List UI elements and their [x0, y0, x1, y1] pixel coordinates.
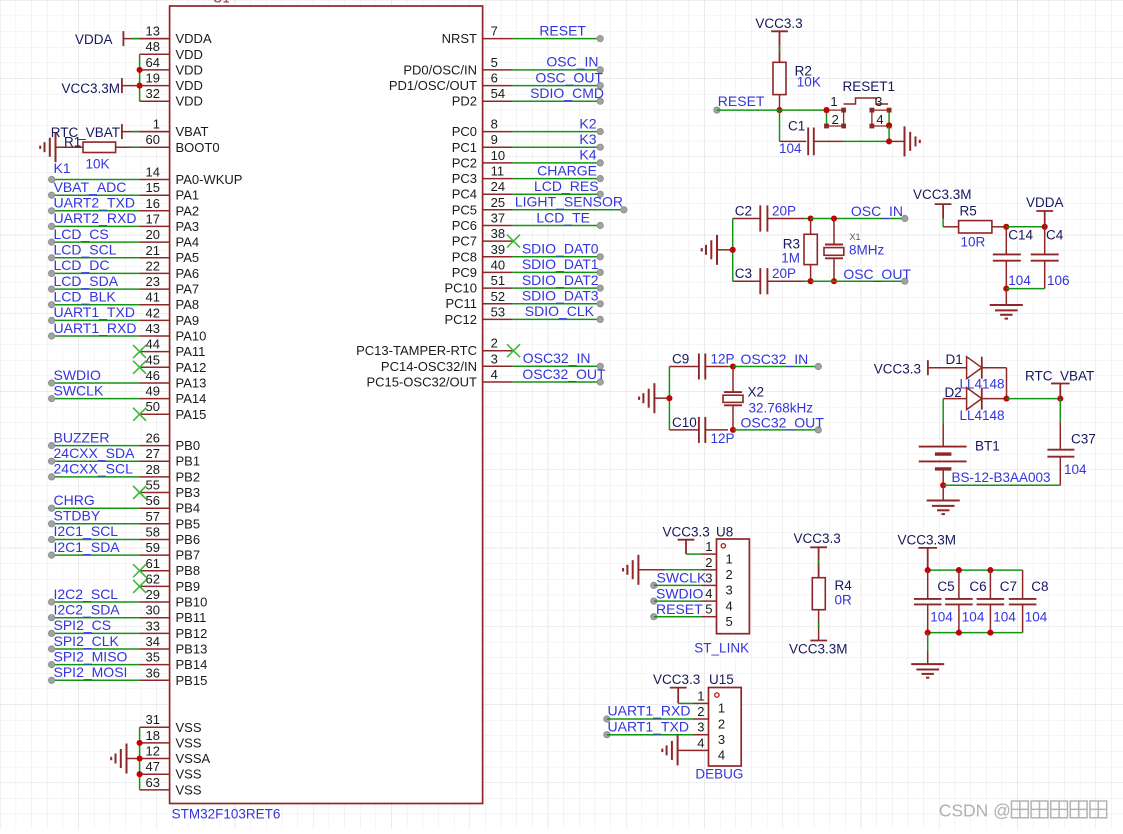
svg-text:PB10: PB10: [176, 595, 208, 610]
junction RTC_VBAT: [1057, 396, 1063, 402]
svg-text:5: 5: [726, 614, 733, 629]
wire VDD bracket: [139, 54, 141, 101]
svg-text:OSC_IN: OSC_IN: [546, 54, 598, 70]
svg-text:SDIO_CLK: SDIO_CLK: [525, 303, 595, 319]
power port VCC3.3M (cap bank): [898, 533, 957, 571]
U1 pin 18 VSS: [140, 728, 202, 751]
wire C1 to ground: [843, 140, 889, 142]
U1 pin 19 VDD: [140, 71, 203, 94]
svg-text:4: 4: [876, 112, 883, 127]
capacitor C2: [733, 205, 804, 231]
svg-text:LCD_RES: LCD_RES: [534, 178, 599, 194]
svg-text:PB5: PB5: [176, 516, 201, 531]
resistor R2: [773, 62, 786, 110]
svg-text:VCC3.3M: VCC3.3M: [61, 81, 120, 96]
U1 pin 48 VDD: [140, 39, 203, 62]
svg-text:33: 33: [146, 618, 160, 633]
U15 pin 4: [694, 735, 726, 762]
U1 pin 30 PB11: [140, 603, 207, 626]
svg-text:PA15: PA15: [176, 407, 207, 422]
svg-text:C14: C14: [1008, 228, 1033, 243]
svg-text:UART2_TXD: UART2_TXD: [54, 195, 135, 211]
svg-text:43: 43: [146, 321, 160, 336]
svg-text:K3: K3: [579, 131, 596, 147]
svg-text:16: 16: [146, 196, 160, 211]
power port VCC3.3M (R4 bottom): [789, 641, 848, 657]
wire down to C37: [1059, 399, 1061, 423]
junction X2 top: [730, 363, 736, 369]
svg-text:UART2_RXD: UART2_RXD: [54, 210, 137, 226]
svg-text:63: 63: [146, 775, 160, 790]
wire R4 bottom green joint: [818, 622, 820, 627]
ground (U15): [662, 735, 677, 765]
svg-text:OSC32_IN: OSC32_IN: [523, 350, 591, 366]
wire R5 to VDDA: [1006, 226, 1044, 228]
svg-text:59: 59: [146, 540, 160, 555]
svg-text:D1: D1: [946, 352, 963, 367]
svg-text:CHRG: CHRG: [54, 492, 95, 508]
wire net OSC_OUT: [513, 82, 604, 88]
svg-text:PC2: PC2: [452, 155, 477, 170]
U1 pin 64 VDD: [140, 55, 203, 78]
junction R3 bottom: [808, 278, 814, 284]
svg-text:31: 31: [146, 712, 160, 727]
U1 pin 7 NRST: [442, 24, 513, 47]
svg-text:18: 18: [146, 728, 160, 743]
svg-text:1: 1: [153, 117, 160, 132]
wire ground to U8 pin2: [638, 569, 701, 571]
U1 pin 59 PB7: [140, 540, 200, 563]
svg-text:OSC32_OUT: OSC32_OUT: [741, 414, 825, 430]
wire net CHRG: [48, 505, 139, 511]
svg-text:BOOT0: BOOT0: [176, 140, 220, 155]
svg-text:10: 10: [491, 148, 505, 163]
no-connect PB3: [133, 486, 146, 499]
svg-text:PB3: PB3: [176, 485, 201, 500]
wire net I2C2_SDA: [48, 615, 139, 621]
svg-text:10R: 10R: [961, 235, 986, 250]
svg-text:RESET: RESET: [539, 22, 586, 38]
svg-text:SDIO_DAT0: SDIO_DAT0: [522, 241, 599, 257]
svg-text:C8: C8: [1031, 579, 1048, 594]
power port VCC3.3M (left): [61, 78, 139, 96]
U1 pin 5 PD0/OSC/IN: [403, 55, 512, 78]
svg-text:104: 104: [779, 141, 802, 156]
wire C3 to R3 bottom: [804, 280, 811, 282]
svg-text:60: 60: [146, 132, 160, 147]
U1 pin 36 PB15: [140, 665, 208, 688]
wire net SDIO_DAT2: [513, 285, 604, 291]
svg-text:PA5: PA5: [176, 250, 200, 265]
U1 pin 25 PC5: [452, 195, 513, 218]
svg-text:8MHz: 8MHz: [849, 243, 885, 258]
svg-text:1: 1: [726, 551, 733, 566]
svg-text:PB2: PB2: [176, 469, 201, 484]
svg-text:PB12: PB12: [176, 626, 208, 641]
svg-text:SWDIO: SWDIO: [656, 585, 704, 601]
wire net 24CXX_SDA: [48, 458, 139, 464]
svg-text:LCD_SDA: LCD_SDA: [54, 273, 119, 289]
junction VSS row 2: [137, 755, 143, 761]
svg-text:32: 32: [146, 86, 160, 101]
svg-text:UART1_RXD: UART1_RXD: [608, 703, 691, 719]
svg-text:PC8: PC8: [452, 249, 477, 264]
junction C4 top: [1042, 224, 1048, 230]
svg-text:PA11: PA11: [176, 344, 206, 359]
svg-text:20P: 20P: [772, 203, 796, 218]
svg-text:VCC3.3: VCC3.3: [653, 672, 700, 687]
wire VDDA green joint: [132, 38, 140, 40]
wire cap bank top: [928, 569, 1023, 571]
svg-text:2: 2: [697, 704, 704, 719]
wire net LCD_BLK: [48, 302, 139, 308]
U1 pin 61 PB8: [140, 556, 200, 578]
junction X1 bottom: [831, 278, 837, 284]
svg-text:BS-12-B3AA003: BS-12-B3AA003: [952, 470, 1051, 485]
svg-text:SWCLK: SWCLK: [54, 382, 104, 398]
svg-text:21: 21: [146, 243, 160, 258]
svg-text:28: 28: [146, 462, 160, 477]
svg-text:6: 6: [491, 71, 498, 86]
U1 pin 60 BOOT0: [140, 132, 220, 155]
U1 pin 47 VSS: [140, 759, 202, 782]
svg-text:34: 34: [146, 634, 160, 649]
U1 pin 58 PB6: [140, 525, 200, 548]
svg-text:PC14-OSC32/IN: PC14-OSC32/IN: [381, 359, 477, 374]
svg-text:5: 5: [705, 602, 712, 617]
svg-text:104: 104: [1025, 610, 1048, 625]
svg-text:VCC3.3: VCC3.3: [755, 16, 802, 31]
svg-text:X1: X1: [850, 232, 861, 242]
svg-text:I2C2_SCL: I2C2_SCL: [54, 586, 119, 602]
wire R2 junction down to C1: [779, 110, 781, 141]
U1 pin 29 PB10: [140, 587, 208, 610]
wire C9 to X2 node: [728, 366, 733, 368]
U1 pin 53 PC12: [444, 304, 512, 327]
junction bottom C5: [925, 630, 931, 636]
wire net LCD_DC: [48, 270, 139, 276]
svg-text:OSC32_OUT: OSC32_OUT: [522, 366, 606, 382]
wire net SDIO_CMD: [513, 98, 604, 104]
svg-text:PC13-TAMPER-RTC: PC13-TAMPER-RTC: [356, 343, 477, 358]
wire to ground (32k): [654, 397, 669, 399]
svg-text:20P: 20P: [772, 266, 796, 281]
svg-text:12P: 12P: [711, 431, 735, 446]
U1 pin 3 PC14-OSC32/IN: [381, 351, 513, 374]
junction D1/D2: [1003, 396, 1009, 402]
svg-text:SPI2_MISO: SPI2_MISO: [54, 648, 128, 664]
no-connect PA15: [133, 408, 146, 421]
svg-text:52: 52: [491, 289, 505, 304]
U15 pin 3: [694, 720, 726, 747]
U1 pin 22 PA6: [140, 258, 200, 281]
svg-text:RTC_VBAT: RTC_VBAT: [1025, 369, 1094, 384]
svg-text:OSC32_IN: OSC32_IN: [741, 351, 809, 367]
svg-text:VBAT: VBAT: [176, 124, 209, 139]
U1 pin 46 PA13: [140, 368, 207, 391]
wire net SPI2_CS: [48, 630, 139, 636]
svg-text:BUZZER: BUZZER: [54, 429, 110, 445]
U1 pin 37 PC6: [452, 211, 513, 234]
svg-text:39: 39: [491, 242, 505, 257]
wire C14-C4 bottom: [1006, 288, 1044, 290]
wire OSC_IN (crystal): [811, 215, 908, 221]
ground (cap bank): [911, 664, 944, 678]
svg-text:SDIO_DAT3: SDIO_DAT3: [522, 288, 599, 304]
svg-text:OSC_OUT: OSC_OUT: [843, 266, 911, 282]
svg-text:VDD: VDD: [176, 94, 203, 109]
wire net RESET: [513, 35, 604, 41]
svg-text:4: 4: [726, 598, 733, 613]
capacitor C6: [945, 570, 973, 633]
U1 pin 2 PC13-TAMPER-RTC: [356, 336, 512, 359]
U8 pin 3: [702, 570, 733, 597]
svg-text:30: 30: [146, 603, 160, 618]
svg-text:61: 61: [146, 556, 160, 571]
svg-text:VDDA: VDDA: [1026, 195, 1064, 210]
wire net UART1_RXD (U15): [604, 716, 694, 722]
svg-text:PC12: PC12: [444, 312, 477, 327]
svg-text:49: 49: [146, 384, 160, 399]
wire ground to U15 pin4: [678, 749, 694, 751]
svg-text:SWDIO: SWDIO: [54, 367, 102, 383]
svg-text:9: 9: [491, 132, 498, 147]
svg-text:10K: 10K: [86, 157, 110, 172]
svg-text:VSSA: VSSA: [176, 751, 211, 766]
svg-text:OSC_IN: OSC_IN: [851, 203, 903, 219]
svg-text:0R: 0R: [835, 593, 853, 608]
wire to ground (reset): [889, 140, 904, 142]
svg-text:PD0/OSC/IN: PD0/OSC/IN: [403, 62, 477, 77]
svg-text:C7: C7: [1000, 579, 1017, 594]
U8 pin 2: [702, 555, 733, 582]
svg-text:PA12: PA12: [176, 360, 207, 375]
svg-text:104: 104: [962, 610, 985, 625]
svg-text:PD2: PD2: [452, 94, 477, 109]
svg-text:ST_LINK: ST_LINK: [694, 640, 749, 655]
U15 pin 2: [694, 704, 726, 731]
wire BT1 to ground: [942, 485, 944, 500]
U1 pin 45 PA12: [140, 352, 207, 375]
svg-text:41: 41: [146, 290, 160, 305]
svg-text:NRST: NRST: [442, 31, 477, 46]
wire C2 to R3 node: [804, 218, 811, 220]
junction VSS row 3: [137, 771, 143, 777]
capacitor C4: [1031, 227, 1059, 289]
ground at R1: [40, 132, 55, 162]
junction top C5: [925, 567, 931, 573]
U1 pin 49 PA14: [140, 384, 207, 407]
junction C14 top: [1003, 224, 1009, 230]
svg-text:OSC_OUT: OSC_OUT: [535, 69, 603, 85]
U1 pin 50 PA15: [140, 399, 207, 422]
svg-text:4: 4: [705, 586, 712, 601]
svg-text:PA4: PA4: [176, 235, 200, 250]
wire BOOT0 green joint: [132, 146, 140, 148]
svg-text:37: 37: [491, 211, 505, 226]
svg-text:27: 27: [146, 446, 160, 461]
wire C14 to ground: [1005, 289, 1007, 305]
svg-text:15: 15: [146, 180, 160, 195]
svg-text:53: 53: [491, 304, 505, 319]
wire net OSC32_IN: [513, 363, 604, 369]
junction VDD pin19: [137, 83, 143, 89]
resistor R4: [812, 578, 825, 641]
ground (U8): [623, 555, 638, 585]
wire cap bank to ground: [927, 633, 929, 665]
wire net UART1_TXD (U15): [604, 732, 694, 738]
svg-text:32.768kHz: 32.768kHz: [749, 401, 814, 416]
wire VCC3.3 to D1: [928, 367, 967, 369]
svg-text:7: 7: [491, 24, 498, 39]
wire net BUZZER: [48, 442, 139, 448]
wire net LCD_TE: [513, 222, 604, 228]
svg-text:I2C1_SDA: I2C1_SDA: [54, 539, 121, 555]
svg-text:VCC3.3M: VCC3.3M: [898, 533, 957, 548]
svg-text:PA13: PA13: [176, 376, 207, 391]
svg-text:35: 35: [146, 650, 160, 665]
svg-text:4: 4: [718, 748, 725, 763]
svg-text:PA14: PA14: [176, 391, 207, 406]
U8 pin1 indicator: [721, 544, 725, 548]
svg-text:54: 54: [491, 86, 505, 101]
power port VCC3.3 (R4): [794, 531, 841, 578]
wire button pin4 down: [888, 126, 890, 141]
junction bottom C6: [956, 630, 962, 636]
U1 pin 40 PC9: [452, 257, 513, 280]
svg-text:U15: U15: [709, 672, 734, 687]
U1 pin 27 PB1: [140, 446, 200, 469]
wire net LCD_CS: [48, 239, 139, 245]
U8 pin 4: [702, 586, 733, 613]
wire net UART1_RXD: [48, 333, 139, 339]
ground (reset circuit): [905, 126, 920, 156]
svg-text:VCC3.3: VCC3.3: [794, 531, 841, 546]
no-connect PA11: [133, 345, 146, 358]
svg-text:SWCLK: SWCLK: [657, 570, 707, 586]
svg-text:K2: K2: [579, 115, 596, 131]
svg-text:SDIO_DAT2: SDIO_DAT2: [522, 272, 599, 288]
svg-text:51: 51: [491, 273, 505, 288]
capacitor C8: [1009, 570, 1037, 633]
svg-text:12: 12: [146, 744, 160, 759]
svg-text:PC0: PC0: [452, 124, 477, 139]
svg-text:40: 40: [491, 257, 505, 272]
svg-text:PC10: PC10: [444, 281, 477, 296]
svg-text:LIGHT_SENSOR: LIGHT_SENSOR: [515, 194, 623, 210]
svg-text:C5: C5: [937, 579, 954, 594]
svg-text:4: 4: [491, 367, 498, 382]
svg-text:U1: U1: [213, 0, 230, 6]
crystal X2: [723, 367, 743, 430]
svg-text:PD1/OSC/OUT: PD1/OSC/OUT: [389, 78, 477, 93]
svg-text:2: 2: [491, 336, 498, 351]
svg-text:RESET: RESET: [656, 601, 703, 617]
svg-text:PB8: PB8: [176, 563, 201, 578]
svg-text:29: 29: [146, 587, 160, 602]
svg-text:2: 2: [726, 567, 733, 582]
svg-text:104: 104: [930, 610, 953, 625]
svg-text:PA7: PA7: [176, 282, 200, 297]
svg-text:R5: R5: [960, 204, 977, 219]
svg-text:106: 106: [1047, 273, 1070, 288]
junction R2/RESET: [776, 107, 782, 113]
svg-text:19: 19: [146, 71, 160, 86]
capacitor C37: [1047, 422, 1074, 485]
wire net LCD_SCL: [48, 255, 139, 261]
U15 pin 1: [694, 688, 726, 715]
svg-text:C37: C37: [1071, 432, 1096, 447]
svg-text:57: 57: [146, 509, 160, 524]
wire net SWDIO (U8): [651, 598, 702, 604]
U1 pin 28 PB2: [140, 462, 200, 485]
svg-text:LCD_TE: LCD_TE: [536, 209, 590, 225]
svg-text:VDD: VDD: [176, 47, 203, 62]
wire OSC_OUT (crystal): [811, 278, 908, 284]
battery BT1: [919, 423, 967, 485]
wire net STDBY: [48, 521, 139, 527]
svg-text:PC5: PC5: [452, 202, 477, 217]
svg-text:C9: C9: [672, 351, 689, 366]
svg-text:VCC3.3M: VCC3.3M: [913, 187, 972, 202]
svg-text:1M: 1M: [781, 251, 800, 266]
U1 pin 54 PD2: [452, 86, 513, 109]
wire net 24CXX_SCL: [48, 474, 139, 480]
wire net UART1_TXD: [48, 317, 139, 323]
diode D2: [943, 388, 1006, 410]
svg-text:3: 3: [705, 570, 712, 585]
svg-text:C10: C10: [672, 415, 697, 430]
svg-text:VSS: VSS: [176, 735, 202, 750]
svg-text:3: 3: [718, 732, 725, 747]
svg-text:17: 17: [146, 211, 160, 226]
svg-text:55: 55: [146, 478, 160, 493]
svg-text:SDIO_DAT1: SDIO_DAT1: [522, 256, 599, 272]
U1 pin 63 VSS: [140, 775, 202, 798]
U1 pin 34 PB13: [140, 634, 208, 657]
svg-text:3: 3: [491, 351, 498, 366]
push button RESET1: [824, 94, 891, 128]
svg-text:C1: C1: [788, 119, 805, 134]
U1 pin 39 PC8: [452, 242, 513, 264]
power port VCC3.3M (R5): [913, 187, 972, 219]
no-connect PB9: [133, 580, 146, 593]
svg-text:UART1_TXD: UART1_TXD: [54, 304, 135, 320]
resistor R3: [804, 219, 817, 282]
junction C1/button: [886, 138, 892, 144]
svg-text:20: 20: [146, 227, 160, 242]
svg-text:PB9: PB9: [176, 579, 201, 594]
svg-text:SPI2_MOSI: SPI2_MOSI: [54, 664, 128, 680]
svg-text:PC9: PC9: [452, 265, 477, 280]
svg-text:PA10: PA10: [176, 329, 207, 344]
wire net SDIO_DAT1: [513, 269, 604, 275]
svg-text:50: 50: [146, 399, 160, 414]
svg-text:RTC_VBAT: RTC_VBAT: [51, 125, 120, 140]
svg-text:PA8: PA8: [176, 297, 200, 312]
capacitor C14: [993, 227, 1021, 289]
wire D2 anode down to battery: [942, 399, 944, 424]
svg-text:PA1: PA1: [176, 188, 200, 203]
U1 pin 13 VDDA: [140, 24, 212, 47]
svg-text:104: 104: [1064, 462, 1087, 477]
svg-text:24CXX_SCL: 24CXX_SCL: [54, 461, 134, 477]
svg-text:26: 26: [146, 431, 160, 446]
svg-text:8: 8: [491, 117, 498, 132]
junction VDD pin64: [137, 67, 143, 73]
U1 pin 42 PA9: [140, 305, 200, 328]
svg-text:BT1: BT1: [975, 439, 1000, 454]
